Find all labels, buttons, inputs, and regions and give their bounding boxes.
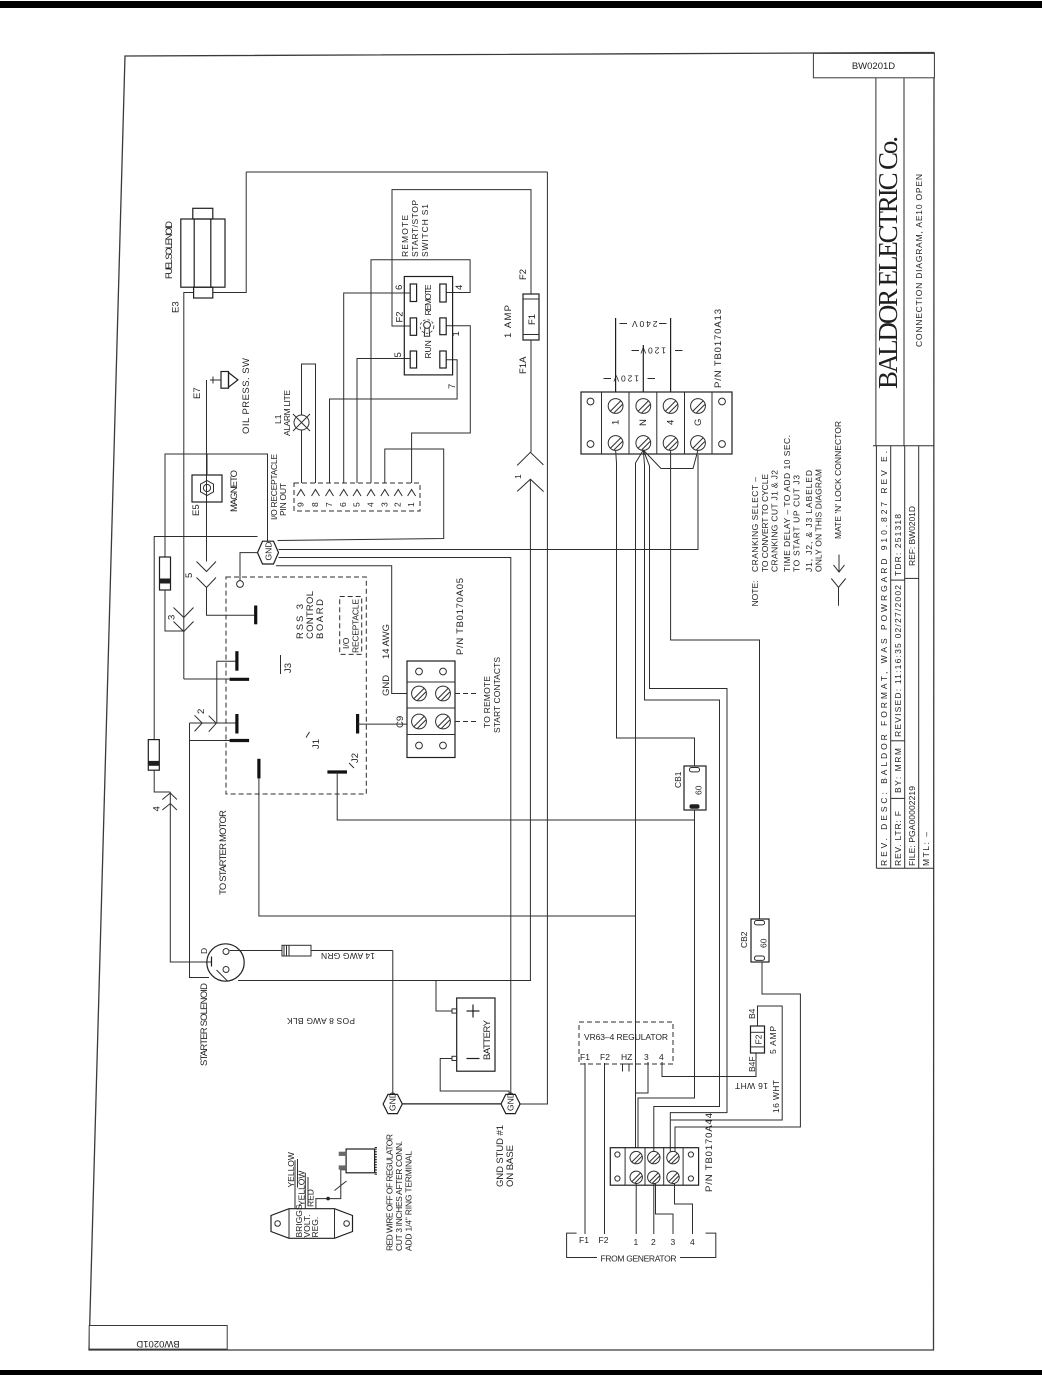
terminal block P/N TB0170A44: [610, 1148, 698, 1186]
jumper 5 chevrons: [197, 562, 217, 588]
svg-text:REF: BW0201D: REF: BW0201D: [907, 506, 917, 566]
wire fuse1 to jumper3: [165, 590, 184, 631]
starter solenoid: [207, 944, 244, 982]
svg-text:120V: 120V: [640, 346, 666, 356]
wire gnd to fuse2: [154, 537, 257, 740]
title block frame: [873, 78, 934, 446]
I/O receptacle inner dashed box: [340, 597, 362, 655]
svg-text:B4F: B4F: [747, 1056, 757, 1072]
svg-text:240V: 240V: [632, 319, 658, 329]
voltage stub N: [642, 345, 644, 392]
svg-text:14 AWG: 14 AWG: [381, 624, 392, 659]
svg-text:3: 3: [644, 1052, 649, 1062]
jumper plate A: [254, 606, 257, 625]
svg-text:OIL PRESS. SW: OIL PRESS. SW: [241, 358, 252, 434]
svg-text:YELLOW: YELLOW: [286, 1152, 296, 1187]
svg-text:G: G: [693, 419, 704, 426]
svg-text:60: 60: [759, 938, 769, 948]
regulator pin labels: [580, 1052, 664, 1062]
svg-text:J2: J2: [350, 753, 361, 763]
terminal block P/N TB0170A05: [407, 661, 455, 758]
svg-text:1: 1: [406, 502, 416, 507]
wire resistor to GND1 hex: [392, 951, 394, 1095]
svg-text:4: 4: [666, 420, 677, 425]
red wire to connector with cut slash: [328, 1170, 346, 1199]
svg-text:ALARM LITE: ALARM LITE: [282, 390, 292, 436]
svg-text:VR63–4 REGULATOR: VR63–4 REGULATOR: [584, 1032, 668, 1042]
wire gnd bundle to C9 gnd row: [276, 566, 407, 694]
svg-text:PIN OUT: PIN OUT: [278, 483, 288, 516]
wire jumper4 to starter solenoid: [170, 792, 211, 962]
wire TB13-1 to CB1 top: [616, 450, 695, 766]
svg-text:REG.: REG.: [310, 1217, 320, 1238]
switch pins: [410, 284, 446, 368]
svg-text:7: 7: [447, 384, 458, 389]
briggs wire yellow 1: [294, 1160, 296, 1209]
ground hex stud right: [501, 1092, 520, 1113]
svg-text:FILE: PGA00002219: FILE: PGA00002219: [907, 786, 917, 866]
svg-text:1: 1: [513, 474, 523, 479]
label RED WIRE OFF OF REGULATOR note: [385, 1134, 414, 1251]
wire jumper2 to starter solenoid coil: [190, 723, 210, 978]
wire lamp loop to pin8: [302, 364, 316, 483]
svg-text:BW0201D: BW0201D: [852, 61, 895, 72]
label J1: [306, 732, 322, 749]
alarm lamp L1: [293, 414, 310, 431]
generator labels: [579, 1235, 695, 1247]
svg-text:RED: RED: [306, 1189, 316, 1207]
terminal block P/N TB0170A13: [581, 392, 732, 454]
ground hex GND1: [258, 541, 279, 564]
label L1 ALARM LITE: [273, 390, 292, 436]
svg-text:CB2: CB2: [739, 931, 749, 948]
wire F1A down: [530, 340, 532, 452]
jumper plate E (J2 right): [356, 714, 359, 734]
svg-text:CB1: CB1: [673, 771, 683, 788]
wire top loop horizontal: [246, 171, 547, 173]
svg-text:F1: F1: [580, 1052, 590, 1062]
svg-text:F2: F2: [518, 269, 529, 280]
svg-text:F1: F1: [579, 1235, 589, 1245]
label J2: [349, 753, 361, 768]
mate-n-lock example symbol: [831, 555, 845, 606]
label YELLOW 2: [297, 1171, 309, 1206]
fuse F1: [523, 294, 539, 340]
briggs wire yellow 2: [304, 1173, 306, 1209]
resistor 14 AWG GRN: [230, 945, 393, 956]
label GND STUD #1 ON BASE: [495, 1125, 516, 1187]
svg-text:3: 3: [167, 615, 178, 620]
svg-text:N: N: [638, 419, 649, 426]
fuse F2 B4: [751, 1026, 765, 1053]
briggs voltage regulator body: [271, 1209, 353, 1239]
svg-text:GND: GND: [388, 1092, 398, 1111]
briggs connector: [339, 1148, 377, 1175]
svg-text:5: 5: [352, 502, 362, 507]
svg-text:POS 8 AWG BLK: POS 8 AWG BLK: [287, 1016, 355, 1026]
grand vertical ground wire: [519, 172, 547, 1104]
wire jumper5 to plate A: [207, 588, 256, 616]
bottom scan bar: [0, 1370, 1042, 1375]
wire battery plus branch: [436, 981, 452, 1012]
hz symbol: [623, 1064, 630, 1072]
jumper 2 chevrons: [195, 715, 217, 731]
remote start stop switch S1 box: [404, 277, 452, 375]
jumper plate D (J1): [257, 759, 260, 779]
label 120V row 1-N: [604, 374, 656, 384]
wire F1 fuse to switch F2 pin: [392, 190, 531, 326]
svg-text:2: 2: [196, 709, 207, 714]
svg-text:TDR: 251318: TDR: 251318: [893, 514, 903, 576]
svg-text:REV. DESC: BALDOR FORMAT, WAS: REV. DESC: BALDOR FORMAT, WAS POWRGARD 9…: [879, 451, 889, 866]
svg-text:60: 60: [694, 785, 704, 795]
wire plate G stub: [190, 740, 230, 742]
wire battery minus to gnd stud: [440, 1059, 509, 1095]
mate-n-lock pair at F1A: [517, 452, 543, 980]
svg-text:F2: F2: [754, 1034, 764, 1044]
svg-text:3: 3: [671, 1237, 676, 1247]
svg-text:MTL: –: MTL: –: [921, 832, 931, 866]
C9 block screws: [412, 686, 451, 729]
label 120V row N-4: [632, 346, 683, 356]
svg-text:6: 6: [338, 502, 348, 507]
svg-text:120V: 120V: [613, 374, 639, 384]
svg-text:P/N TB0170A44: P/N TB0170A44: [704, 1113, 715, 1192]
svg-text:REMOTE: REMOTE: [423, 284, 433, 315]
svg-text:E7: E7: [192, 387, 203, 399]
svg-text:START CONTACTS: START CONTACTS: [492, 657, 502, 733]
svg-text:5 AMP: 5 AMP: [768, 1026, 778, 1054]
svg-text:16 WHT: 16 WHT: [771, 1080, 781, 1113]
svg-text:F2: F2: [600, 1052, 610, 1062]
breaker CB1: [684, 766, 706, 810]
label RSS 3 CONTROL BOARD: [295, 591, 326, 639]
svg-text:SWITCH S1: SWITCH S1: [420, 204, 430, 257]
svg-text:4: 4: [659, 1052, 664, 1062]
magneto: [192, 475, 222, 502]
wire TB13-N fan c to TB44 screw3: [643, 450, 727, 1152]
wire E7 down: [206, 380, 208, 562]
svg-text:FUEL SOLENOID: FUEL SOLENOID: [164, 221, 175, 279]
wire reg F1 down: [584, 1063, 586, 1234]
wire CB1 bottom to TB44 screw1: [638, 810, 695, 1148]
switch toggle symbol: [420, 320, 434, 337]
svg-text:1: 1: [634, 1237, 639, 1247]
wire TB44 screw1 bottom to gen 1: [635, 1183, 637, 1234]
svg-text:MATE 'N' LOCK CONNECTOR: MATE 'N' LOCK CONNECTOR: [833, 421, 843, 539]
svg-text:C9: C9: [395, 716, 406, 728]
wire pin7 to switch pin7: [330, 360, 458, 483]
svg-text:HZ: HZ: [621, 1052, 632, 1062]
jumper plate G: [230, 739, 250, 742]
svg-text:BW0201D: BW0201D: [136, 1338, 179, 1349]
svg-text:F2: F2: [395, 311, 406, 322]
svg-text:D: D: [199, 948, 209, 954]
wire pin4 to switch pin4: [371, 260, 470, 483]
fuel solenoid: [181, 208, 225, 298]
svg-text:FROM GENERATOR: FROM GENERATOR: [601, 1254, 677, 1264]
wire pin6 to switch pin6: [344, 293, 411, 483]
svg-text:RED WIRE OFF OF REGULATOR: RED WIRE OFF OF REGULATOR: [385, 1134, 395, 1251]
svg-text:1 AMP: 1 AMP: [503, 305, 514, 338]
briggs wire red: [316, 1199, 328, 1209]
svg-text:3: 3: [379, 502, 389, 507]
label I/O RECEPTACLE inner: [341, 599, 361, 653]
svg-text:2: 2: [393, 502, 403, 507]
wire solenoid right to top loop: [213, 172, 246, 293]
note text block: [750, 435, 824, 607]
top scan bar: [0, 1, 1042, 8]
label J3: [281, 655, 295, 674]
svg-text:RUN: RUN: [423, 340, 433, 358]
svg-text:P/N TB0170A13: P/N TB0170A13: [713, 309, 724, 388]
svg-text:F2: F2: [599, 1235, 609, 1245]
svg-text:4: 4: [454, 285, 465, 290]
wire TB13-N fan a to TB44 screw1: [636, 450, 644, 916]
svg-text:BATTERY: BATTERY: [482, 1019, 493, 1060]
VR63-4 regulator dashed box: [579, 1022, 673, 1064]
svg-text:GND: GND: [381, 675, 392, 696]
wire plate H stem to CB1 bottom net: [337, 772, 694, 820]
switch pin labels: [393, 285, 465, 389]
jumper plate F: [230, 678, 250, 681]
wire hex to hex: [402, 1103, 501, 1105]
wire pin5 to switch pin5: [357, 359, 410, 484]
I/O receptacle pinout dashed box: [294, 483, 420, 511]
label REMOTE START/STOP SWITCH S1: [400, 200, 430, 257]
svg-text:6: 6: [394, 285, 405, 290]
label YELLOW 1: [286, 1152, 298, 1187]
svg-text:REV. LTR: F: REV. LTR: F: [893, 811, 903, 866]
svg-text:F1A: F1A: [518, 356, 529, 374]
svg-text:5: 5: [393, 352, 404, 357]
revision strip frame: [876, 446, 934, 869]
svg-text:TO REMOTE: TO REMOTE: [482, 676, 492, 728]
svg-text:1: 1: [611, 420, 622, 425]
wire N-G jumper loop: [643, 450, 698, 469]
wire gnd bundle to terminal G: [279, 455, 699, 550]
svg-text:GND: GND: [264, 542, 274, 561]
svg-text:START/STOP: START/STOP: [410, 200, 420, 257]
wire gnd bundle to receptacle pin3: [278, 449, 444, 541]
receptacle pin arrows and numbers: [297, 490, 416, 497]
svg-text:BOARD: BOARD: [315, 599, 326, 639]
red wire junction dot: [326, 1197, 330, 1201]
TB13 screws: [608, 399, 705, 451]
svg-text:J1: J1: [311, 739, 322, 749]
svg-text:8: 8: [310, 502, 320, 507]
voltage stub 4: [670, 318, 672, 392]
wire reg pin3 to TB44 screw1: [636, 1062, 649, 1093]
jumper plate C: [235, 714, 238, 734]
wire TB44 screw2 bottom to gen 2: [653, 1183, 655, 1234]
wire B4 node to 16WHT drop: [671, 1006, 782, 1120]
svg-text:NOTE:: NOTE:: [750, 581, 760, 607]
jumper 3 chevrons: [174, 608, 194, 632]
wire reg pin4 to B4F fuse: [662, 1053, 756, 1077]
svg-text:4: 4: [152, 806, 163, 811]
svg-text:I/O: I/O: [341, 637, 351, 649]
label 240V row: [620, 319, 667, 329]
jumper 4 chevrons: [162, 793, 177, 810]
svg-text:1: 1: [451, 331, 462, 336]
TB44 screws: [630, 1151, 679, 1183]
wire TB44 screw3 jog to gen 4: [675, 1183, 693, 1234]
svg-text:TIME DELAY – TO ADD 10 SEC.: TIME DELAY – TO ADD 10 SEC.: [782, 435, 792, 572]
dashed wires to remote start contacts: [455, 694, 479, 722]
label REMOTE RUN: [423, 284, 433, 358]
svg-text:P/N TB0170A05: P/N TB0170A05: [455, 578, 466, 655]
svg-text:ONLY ON THIS DIAGRAM: ONLY ON THIS DIAGRAM: [814, 469, 824, 572]
wire TB13-N fan b to TB44 screw2: [643, 450, 719, 1152]
TB13 terminal labels 1 N 4 G: [611, 419, 705, 426]
svg-text:F1: F1: [527, 314, 538, 325]
BW0201D box top right: [813, 53, 934, 77]
wire E3 down: [184, 293, 194, 680]
oil pressure switch E7: [210, 372, 238, 389]
svg-text:B4: B4: [747, 1008, 757, 1019]
svg-text:4: 4: [366, 502, 376, 507]
jumper plate B: [235, 651, 238, 671]
svg-text:STARTER SOLENOID: STARTER SOLENOID: [199, 983, 210, 1066]
jumper plate H (J2 bottom): [327, 770, 347, 773]
svg-text:BY: MRM: BY: MRM: [893, 748, 903, 793]
svg-text:GND: GND: [506, 1092, 516, 1111]
svg-text:7: 7: [324, 502, 334, 507]
svg-text:E3: E3: [171, 301, 182, 313]
wire jumper3 to plate F: [184, 678, 230, 680]
RSS3 control board dashed outline: [226, 577, 366, 794]
svg-text:ADD 1/4" RING TERMINAL: ADD 1/4" RING TERMINAL: [404, 1151, 414, 1251]
wire magneto net: [165, 454, 268, 557]
wire pin1 to switch pin1: [412, 326, 471, 483]
fuse F near magneto: [160, 557, 171, 590]
wire jumper2 to plates B C: [217, 661, 237, 723]
wire TB44 screw2 jog to gen 3: [656, 1183, 674, 1234]
svg-text:CRANKING CUT J1 & J2: CRANKING CUT J1 & J2: [770, 470, 780, 572]
label I/O RECEPTACLE PIN OUT: [269, 454, 288, 520]
wire lamp to pin9: [301, 430, 303, 483]
svg-text:16 WHT: 16 WHT: [735, 1081, 768, 1091]
battery: [452, 998, 495, 1071]
svg-text:CONNECTION DIAGRAM, AE10 OP: CONNECTION DIAGRAM, AE10 OPEN: [914, 174, 924, 347]
test point circle: [237, 581, 244, 588]
svg-text:TO CONVERT TO CYCLE: TO CONVERT TO CYCLE: [760, 474, 770, 572]
wire gnd to test point: [240, 553, 258, 581]
wire CB2 bottom to TB44 screw3: [675, 962, 800, 1152]
svg-text:J1, J2, & J3 LABELED: J1, J2, & J3 LABELED: [804, 470, 814, 572]
BW0201D box bottom left (rotated 180): [89, 1326, 227, 1350]
voltage stub 1: [615, 318, 617, 392]
wire solenoid pos to battery: [238, 980, 531, 982]
wire TB13-4 to CB2: [671, 450, 760, 919]
svg-text:CUT 3 INCHES AFTER CONN.: CUT 3 INCHES AFTER CONN.: [394, 1141, 404, 1251]
svg-text:J3: J3: [283, 663, 294, 673]
svg-text:E5: E5: [191, 504, 202, 516]
breaker CB2: [751, 919, 769, 962]
label BRIGGS VOLT. REG.: [294, 1204, 320, 1237]
svg-text:RECEPTACLE: RECEPTACLE: [351, 599, 361, 653]
svg-text:4: 4: [690, 1237, 695, 1247]
svg-text:9: 9: [296, 502, 306, 507]
svg-text:2: 2: [651, 1237, 656, 1247]
svg-text:REVISED: 11:16:35 02/27/2002: REVISED: 11:16:35 02/27/2002: [893, 585, 903, 737]
svg-text:TO START UP CUT J3: TO START UP CUT J3: [792, 475, 802, 572]
wire gnd bundle to gnd stud: [279, 558, 511, 1095]
svg-text:BALDOR ELECTRIC Co.: BALDOR ELECTRIC Co.: [873, 136, 903, 389]
label TO REMOTE START CONTACTS: [482, 657, 502, 733]
svg-text:14 AWG GRN: 14 AWG GRN: [321, 951, 375, 961]
wire reg F2 down: [604, 1063, 606, 1234]
wire plate E to C9 block: [358, 723, 407, 725]
fuse 2: [148, 740, 159, 771]
svg-text:CRANKING SELECT –: CRANKING SELECT –: [750, 477, 760, 572]
wire plate D stem to TB44 screw1: [259, 778, 636, 1148]
wire fuse2 to jumper4: [154, 770, 170, 792]
generator bracket: [567, 1233, 716, 1257]
svg-text:5: 5: [184, 573, 195, 578]
svg-text:TO STARTER MOTOR: TO STARTER MOTOR: [218, 810, 229, 895]
ground hex stud left: [383, 1092, 402, 1113]
svg-text:MAGNETO: MAGNETO: [229, 470, 240, 512]
svg-text:ON BASE: ON BASE: [505, 1145, 516, 1187]
drawing border: [89, 53, 934, 1351]
